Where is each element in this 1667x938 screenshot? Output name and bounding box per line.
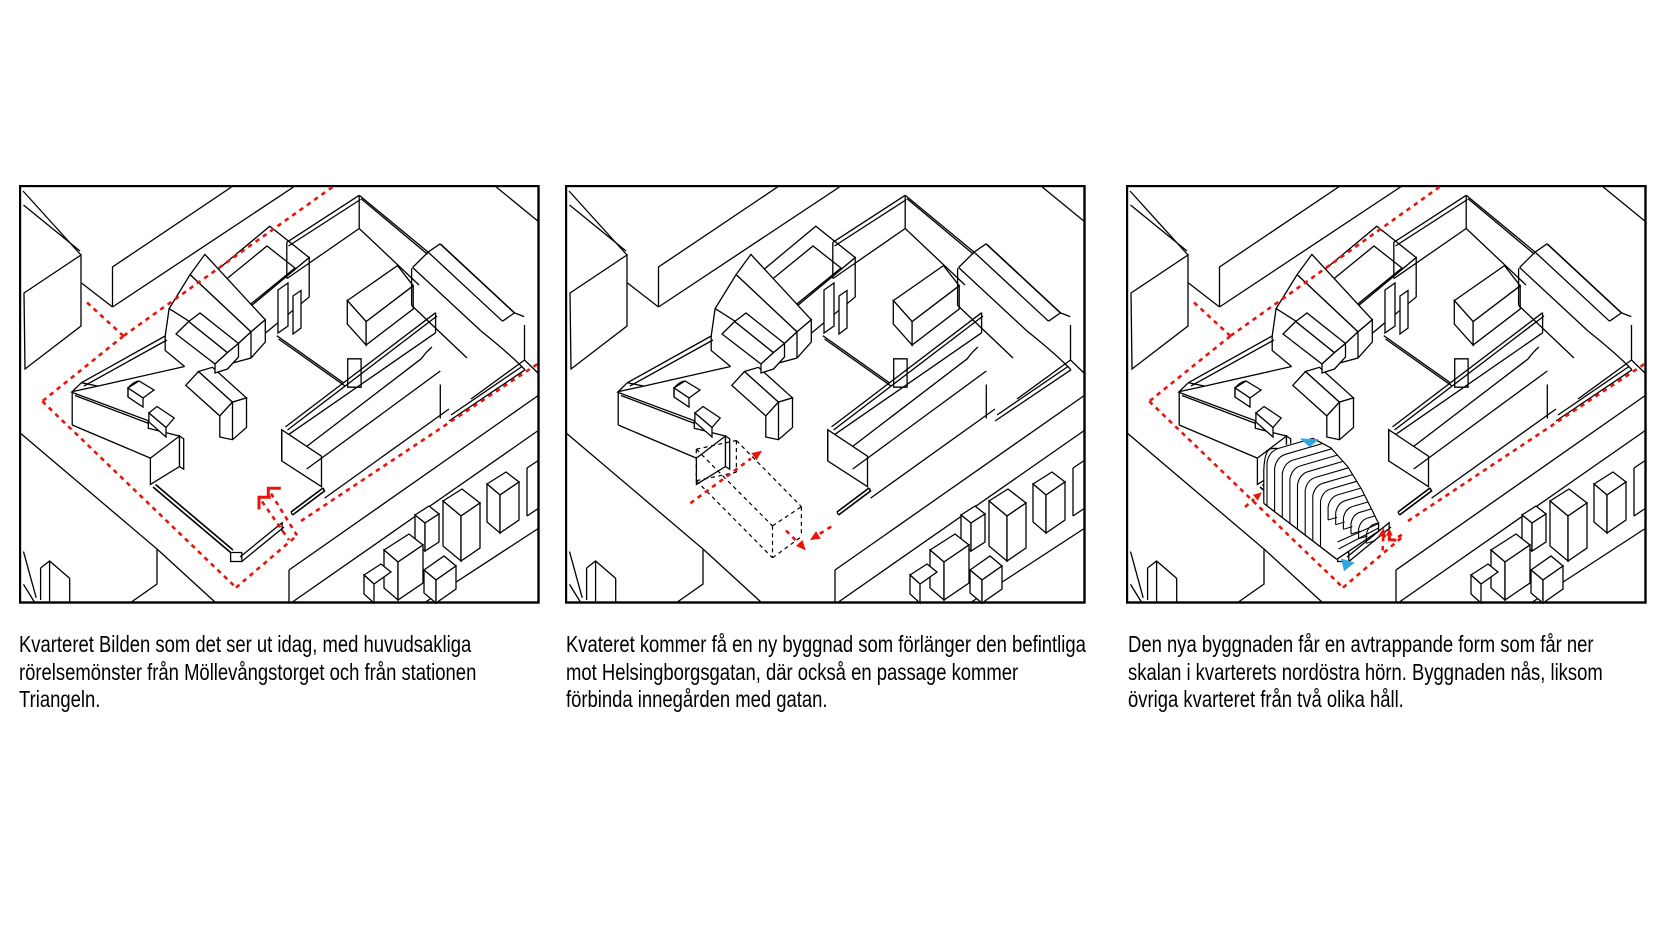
courtyard wall W2 outer bbox=[823, 336, 890, 383]
red path W segment bbox=[1149, 336, 1230, 401]
N1 NW end vertical bbox=[1393, 242, 1395, 278]
G1 NE roof plane bbox=[199, 367, 247, 402]
M wing top face bbox=[893, 266, 959, 322]
tower penthouse bbox=[1320, 246, 1402, 312]
street edge lower bbox=[970, 528, 1085, 603]
courtyard wall W2 inner bbox=[279, 339, 346, 386]
terrace house U3 top bbox=[1522, 506, 1546, 523]
N1 corner vertical bbox=[904, 195, 906, 228]
S NE junction vertical bbox=[981, 313, 983, 333]
H hip SE edge bbox=[1049, 313, 1061, 321]
entrance wall E inner bbox=[1400, 488, 1432, 515]
neighbour TL house SE face bbox=[1131, 255, 1188, 369]
street curb SW bbox=[24, 552, 37, 598]
ghost box vert d bbox=[772, 526, 774, 558]
terrace house L3 front bbox=[910, 575, 920, 603]
red path NW street bbox=[123, 187, 332, 336]
G1b annex top bbox=[695, 407, 720, 428]
neighbour TL house SE face bbox=[24, 255, 81, 369]
S NW facade bottom bbox=[287, 333, 436, 436]
red arrow 1 tail bbox=[690, 459, 751, 504]
terrace house U2 front bbox=[487, 484, 500, 533]
G2 NE roof plane bbox=[1296, 313, 1346, 353]
S NW facade bottom bbox=[833, 333, 982, 436]
tower SE facade bbox=[241, 258, 309, 353]
tower top face bbox=[202, 226, 309, 314]
low wall corner box bbox=[1338, 553, 1349, 562]
H gable edges bbox=[1520, 244, 1548, 268]
low wall SW inner bbox=[1263, 485, 1341, 551]
tower roof edge link bbox=[751, 285, 759, 290]
tower SE facade bbox=[787, 258, 855, 353]
terrace house U2 side bbox=[1046, 482, 1065, 533]
vault rib 11 bbox=[1343, 507, 1352, 530]
SW building west corner edge bbox=[71, 392, 73, 425]
NW perimeter parapet outer bbox=[627, 336, 711, 383]
H SW eave bbox=[959, 268, 1027, 332]
vault SE end bbox=[1337, 522, 1379, 560]
S yard NE vertical bbox=[1546, 385, 1548, 419]
G0 SW roof plane bbox=[715, 275, 797, 349]
terrace house U1 top bbox=[443, 489, 480, 516]
G1a annex top bbox=[1235, 381, 1261, 398]
G1 SE gable face bbox=[766, 398, 793, 440]
tower stair box 1 bbox=[278, 283, 288, 333]
terrace house U3 top bbox=[415, 506, 439, 523]
H ridge bbox=[428, 252, 502, 321]
vault rib 10 bbox=[1336, 501, 1345, 525]
entry bracket arrow 1 bbox=[268, 488, 281, 497]
SW bldg facade bottom bbox=[72, 425, 150, 458]
M wing top face bbox=[1454, 266, 1520, 322]
SW bldg parapet inner bbox=[75, 396, 149, 424]
tower stair box 1 bbox=[824, 283, 834, 333]
M wing SE face bbox=[366, 286, 413, 345]
NW perimeter parapet inner bbox=[630, 340, 713, 386]
N1 NE parapet inner bbox=[1468, 199, 1535, 255]
SW bldg facade bottom bbox=[618, 425, 696, 458]
low wall corner box bbox=[231, 553, 242, 562]
N1 SW facade bottom bbox=[359, 229, 419, 286]
G0 NE roof plane bbox=[190, 254, 265, 332]
terrace sliver top bbox=[527, 460, 539, 468]
SW bldg parapet inner bbox=[621, 396, 695, 424]
vault silhouette fill bbox=[1264, 438, 1379, 559]
G1b annex face bbox=[1256, 413, 1273, 437]
SW bldg hip facet bbox=[72, 383, 98, 392]
M wing SW face bbox=[1454, 301, 1473, 345]
N1 NE parapet inner bbox=[361, 199, 428, 255]
H gable edges bbox=[413, 244, 441, 268]
G0 NE roof plane bbox=[736, 254, 811, 332]
terrace house L3 top bbox=[364, 564, 391, 584]
terrace house L1 top bbox=[1491, 534, 1530, 562]
red arrow into building (left) bbox=[1245, 499, 1254, 507]
G1 SW roof plane bbox=[732, 372, 779, 416]
G0 SW roof plane bbox=[169, 275, 251, 349]
terrace house U2 front bbox=[1033, 484, 1046, 533]
vault rib 5 bbox=[1298, 472, 1308, 530]
H SW eave bbox=[1520, 268, 1588, 332]
terrace house U1 side bbox=[461, 503, 480, 561]
terrace sliver bottom bbox=[1073, 508, 1085, 516]
S NW eave inner bbox=[834, 316, 984, 430]
G2 SW roof plane bbox=[176, 322, 228, 365]
neighbour BL gable house bbox=[41, 561, 70, 578]
red double arrow at entrance bbox=[1381, 537, 1384, 550]
panel 2: new volume bbox=[565, 185, 1086, 604]
blue arrow bottom bbox=[1341, 559, 1355, 572]
H SW eave bbox=[413, 268, 481, 332]
E wing SE wall inner bbox=[1558, 367, 1629, 416]
SW bldg hip facet bbox=[1179, 383, 1205, 392]
NW perimeter courtyard edge bbox=[98, 367, 185, 387]
terrace sliver top bbox=[1634, 460, 1646, 468]
tower penthouse bbox=[759, 246, 841, 312]
G0 SW roof plane bbox=[1276, 275, 1358, 349]
terrace house U3 side bbox=[971, 514, 985, 551]
N1 slab NW parapet outer bbox=[287, 195, 359, 242]
N1 corner vertical bbox=[358, 195, 360, 228]
neighbour TL slab edges bbox=[659, 185, 781, 307]
terrace house U1 top bbox=[1550, 489, 1587, 516]
neighbour BL street corner bbox=[19, 432, 157, 603]
court box B2 bbox=[894, 359, 907, 387]
courtyard wall W2 outer bbox=[1384, 336, 1451, 383]
G0 NE roof plane bbox=[1297, 254, 1372, 332]
terrace house U2 top bbox=[1033, 472, 1065, 495]
low wall S segment bbox=[240, 523, 282, 557]
red path spur from torget bbox=[1194, 303, 1230, 337]
N1 SW facade bottom bbox=[1466, 229, 1526, 286]
NW perimeter courtyard edge bbox=[644, 367, 731, 387]
courtyard wall W2 inner bbox=[825, 339, 892, 386]
G1a annex face bbox=[674, 388, 689, 407]
terrace house L2 side bbox=[982, 566, 1002, 603]
NW perimeter courtyard edge bbox=[1205, 367, 1292, 387]
low wall S segment bbox=[1347, 523, 1389, 557]
H vertical under SW eave bbox=[411, 268, 413, 305]
G2 SW roof plane bbox=[722, 322, 774, 365]
H NE eave bbox=[1547, 244, 1621, 313]
tower roof edge link bbox=[1312, 285, 1320, 290]
tower SW facade bbox=[202, 283, 241, 347]
H SW facade bottom bbox=[412, 305, 467, 358]
G1b annex top bbox=[1256, 407, 1281, 428]
SW bldg hip facet bbox=[618, 383, 644, 392]
tower stair box 2 bbox=[839, 291, 847, 335]
H hip line a bbox=[515, 313, 525, 317]
terrace house U1 front bbox=[1550, 501, 1568, 561]
vault NE silhouette bbox=[1313, 438, 1378, 522]
terrace sliver vert bbox=[1072, 468, 1074, 516]
entrance wall E inner bbox=[293, 488, 325, 515]
G1a annex face bbox=[128, 388, 143, 407]
vault rib 14 bbox=[1366, 524, 1375, 543]
N1 NW end vertical bbox=[832, 242, 834, 278]
terrace house L1 front bbox=[930, 550, 944, 600]
neighbour BL street corner bbox=[565, 432, 703, 603]
entrance wall E outer bbox=[291, 488, 323, 512]
entrance wall E inner bbox=[839, 488, 871, 515]
G1a annex top bbox=[128, 381, 154, 398]
court box B2 bbox=[1455, 359, 1468, 387]
terrace house U1 side bbox=[1568, 503, 1587, 561]
terrace house U2 top bbox=[487, 472, 519, 495]
terrace house L3 top bbox=[1471, 564, 1498, 584]
entrance wall E outer bbox=[837, 488, 869, 512]
terrace sliver vert bbox=[526, 468, 528, 516]
neighbour TR corner bbox=[525, 325, 540, 374]
G1b annex face bbox=[149, 413, 166, 437]
ghost box bottom SE edge bbox=[773, 537, 802, 558]
H gable edges bbox=[959, 244, 987, 268]
G1 SE gable face bbox=[220, 398, 247, 440]
terrace house L3 front bbox=[1471, 575, 1481, 603]
NW bldg end vertical bbox=[1272, 336, 1291, 367]
S yard NE vertical bbox=[439, 385, 441, 419]
G1 NE roof plane bbox=[745, 367, 793, 402]
SW bldg parapet inner bbox=[1182, 396, 1256, 424]
terrace house U2 side bbox=[500, 482, 519, 533]
terrace house L2 top bbox=[1531, 556, 1563, 580]
E wing SE wall outer bbox=[995, 370, 1071, 421]
vault SE step line 2 bbox=[1339, 528, 1379, 549]
G2 NE roof plane bbox=[189, 313, 239, 353]
SW bldg SE end face bbox=[1257, 436, 1286, 484]
terrace house L2 side bbox=[1543, 566, 1563, 603]
low wall SW outer bbox=[153, 487, 231, 553]
tower top face bbox=[1309, 226, 1416, 314]
tower stair box 1 bbox=[1385, 283, 1395, 333]
G2 NE roof plane bbox=[735, 313, 785, 353]
M wing SE face bbox=[1473, 286, 1520, 345]
NW perimeter parapet outer bbox=[1188, 336, 1272, 383]
court box B2 bbox=[348, 359, 361, 387]
N1 NE parapet outer bbox=[359, 195, 428, 252]
ghost box top NW edge bbox=[696, 441, 736, 450]
terrace house L3 front bbox=[364, 575, 374, 603]
neighbour TL house rooflines bbox=[569, 191, 627, 255]
blue arrow top bbox=[1300, 438, 1319, 447]
red path W segment bbox=[42, 336, 123, 401]
ghost box top SE edge bbox=[773, 507, 802, 526]
G1 NE roof plane bbox=[1306, 367, 1354, 402]
S SE eave bbox=[1414, 359, 1529, 447]
terrace house L1 top bbox=[384, 534, 423, 562]
neighbour BL gable house bbox=[587, 561, 616, 578]
H hip SE edge bbox=[1610, 313, 1622, 321]
G2 SE gable face bbox=[1322, 344, 1346, 374]
ghost box vert a bbox=[695, 449, 697, 481]
neighbour TL slab edges bbox=[113, 185, 235, 307]
H hip SE edge bbox=[503, 313, 515, 321]
S SE base line bbox=[307, 371, 441, 469]
N1 NW end vertical bbox=[286, 242, 288, 278]
ghost box bottom NW hidden bbox=[696, 472, 736, 481]
neighbour BL street corner bbox=[1126, 432, 1264, 603]
neighbour TL house rooflines bbox=[1130, 191, 1188, 255]
entry dashed line b bbox=[262, 502, 289, 541]
street curb SW bbox=[1131, 552, 1144, 598]
terrace sliver vert bbox=[1633, 468, 1635, 516]
terrace house L1 side bbox=[398, 545, 423, 600]
S NE junction vertical bbox=[435, 313, 437, 333]
G2 SE gable face bbox=[761, 344, 785, 374]
entrance wall E outer bbox=[1398, 488, 1430, 512]
G1 SW roof plane bbox=[186, 372, 233, 416]
neighbour TR corner bbox=[1632, 325, 1647, 374]
terrace house U2 front bbox=[1594, 484, 1607, 533]
N1 NW facade bottom bbox=[287, 229, 359, 279]
S NE junction vertical bbox=[1542, 313, 1544, 333]
G0 SE gable face bbox=[779, 320, 812, 363]
N1 slab NW parapet inner bbox=[1396, 200, 1468, 247]
G0 SE gable face bbox=[1340, 320, 1373, 363]
terrace house U1 side bbox=[1007, 503, 1026, 561]
SW building west corner edge bbox=[1178, 392, 1180, 425]
neighbour SE street edge bbox=[289, 395, 539, 570]
NW bldg end vertical bbox=[165, 336, 184, 367]
red arrow 2 tail bbox=[786, 531, 798, 543]
entry bracket arrow 2 bbox=[259, 497, 271, 509]
E wing SE wall inner bbox=[451, 367, 522, 416]
S NW eave outer bbox=[1393, 313, 1543, 427]
S NW eave outer bbox=[832, 313, 982, 427]
H hip line a bbox=[1622, 313, 1632, 317]
M wing SE face bbox=[912, 286, 959, 345]
neighbour TR corner bbox=[1071, 325, 1086, 374]
G0 west edge bbox=[165, 309, 169, 336]
terrace house L2 front bbox=[970, 570, 982, 603]
vault rib 12 bbox=[1351, 512, 1360, 534]
S NW facade bottom bbox=[1394, 333, 1543, 436]
panel 3: stepped building bbox=[1126, 185, 1647, 604]
neighbour SE street edge bbox=[835, 395, 1085, 570]
NW perimeter parapet inner bbox=[1191, 340, 1274, 386]
tower stair box 2 bbox=[1400, 291, 1408, 335]
terrace house U2 top bbox=[1594, 472, 1626, 495]
terrace house L2 front bbox=[1531, 570, 1543, 603]
S NW eave outer bbox=[286, 313, 436, 427]
tower top face bbox=[748, 226, 855, 314]
tower SE facade bbox=[1348, 258, 1416, 353]
S SW end face bbox=[1389, 430, 1429, 487]
terrace house L1 side bbox=[1505, 545, 1530, 600]
G2 SW roof plane bbox=[1283, 322, 1335, 365]
ghost box bottom SW edge bbox=[696, 481, 772, 558]
H ridge bbox=[1535, 252, 1609, 321]
N1 NE parapet inner bbox=[907, 199, 974, 255]
terrace sliver bottom bbox=[1634, 508, 1646, 516]
H NE eave bbox=[986, 244, 1060, 313]
N1 corner vertical bbox=[1465, 195, 1467, 228]
N1 slab NW parapet inner bbox=[289, 200, 361, 247]
G1b annex face bbox=[695, 413, 712, 437]
H SW facade bottom bbox=[958, 305, 1013, 358]
ghost box top NE edge bbox=[736, 441, 801, 507]
panel frame bbox=[20, 186, 539, 603]
terrace house L2 top bbox=[970, 556, 1002, 580]
G1b annex top bbox=[149, 407, 174, 428]
low wall SW outer bbox=[1260, 487, 1338, 553]
G1a annex top bbox=[674, 381, 700, 398]
vault rib 7 bbox=[1313, 483, 1323, 541]
S NW eave inner bbox=[1395, 316, 1545, 430]
M wing SW face bbox=[893, 301, 912, 345]
neighbour TL house rooflines bbox=[23, 191, 81, 255]
street edge lower bbox=[424, 528, 539, 603]
G2 SE gable face bbox=[215, 344, 239, 374]
N1 NW facade bottom bbox=[833, 229, 905, 279]
G0 SE gable face bbox=[233, 320, 266, 363]
terrace sliver top bbox=[1073, 460, 1085, 468]
neighbour BL gable house bbox=[1148, 561, 1177, 578]
S yard wall bottom bbox=[1432, 409, 1556, 498]
red path NW street bbox=[1230, 187, 1439, 336]
ghost box vert c bbox=[800, 507, 802, 537]
vault SE step line bbox=[1338, 524, 1379, 543]
N1 SW facade bottom bbox=[905, 229, 965, 286]
red path spur from torget bbox=[87, 303, 123, 337]
H vertical under SW eave bbox=[957, 268, 959, 305]
G1 SW roof plane bbox=[1293, 372, 1340, 416]
street curb SW bbox=[570, 552, 583, 598]
panel 1: existing block bbox=[19, 185, 540, 604]
tower roof edge link bbox=[205, 285, 213, 290]
N1 NW facade bottom bbox=[1394, 229, 1466, 279]
low wall SW inner bbox=[156, 485, 234, 551]
courtyard wall W2 outer bbox=[277, 336, 344, 383]
courtyard wall W2 inner bbox=[1386, 339, 1453, 386]
red path SW street bbox=[1149, 401, 1343, 587]
NW perimeter parapet outer bbox=[81, 336, 165, 383]
terrace house U1 front bbox=[443, 501, 461, 561]
terrace house L3 top bbox=[910, 564, 937, 584]
M wing top face bbox=[347, 266, 413, 322]
S SE eave bbox=[853, 359, 968, 447]
vault base edge bbox=[1264, 503, 1337, 559]
vault rib 13 bbox=[1359, 518, 1368, 539]
ghost box top SW edge bbox=[696, 449, 772, 526]
G1a annex face bbox=[1235, 388, 1250, 407]
red path SW street bbox=[42, 401, 236, 587]
N1 slab NW parapet inner bbox=[835, 200, 907, 247]
vault rib 4 bbox=[1290, 466, 1300, 524]
terrace house U1 front bbox=[989, 501, 1007, 561]
red path S approach bbox=[1343, 536, 1404, 588]
S yard wall bottom bbox=[325, 409, 449, 498]
tower SW facade bbox=[748, 283, 787, 347]
E wing SE wall inner bbox=[997, 367, 1068, 416]
panel frame bbox=[566, 186, 1085, 603]
SW bldg SE end face bbox=[696, 436, 725, 484]
H NE eave bbox=[440, 244, 514, 313]
G0 west edge bbox=[711, 309, 715, 336]
vault rib 9 bbox=[1328, 495, 1338, 520]
entry dashed line a bbox=[271, 494, 297, 536]
vault rib 8 bbox=[1321, 489, 1331, 547]
S SE base line bbox=[1414, 371, 1548, 469]
vault rib 3 bbox=[1282, 460, 1293, 517]
neighbour TR street edge bbox=[1602, 186, 1646, 222]
terrace house U3 side bbox=[1532, 514, 1546, 551]
G0 west edge bbox=[1272, 309, 1276, 336]
S SE eave bbox=[307, 359, 422, 447]
red arrow 3 tail bbox=[817, 527, 831, 536]
terrace house L2 top bbox=[424, 556, 456, 580]
H hip line a bbox=[1061, 313, 1071, 317]
